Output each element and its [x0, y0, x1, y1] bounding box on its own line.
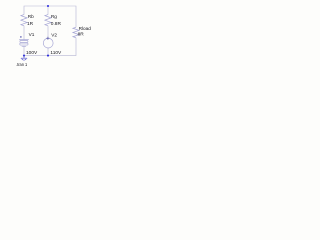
svg-text:0.8R: 0.8R: [51, 21, 62, 27]
svg-text:Rload: Rload: [79, 26, 92, 31]
svg-text:.tran 1: .tran 1: [16, 62, 27, 68]
svg-text:100V: 100V: [26, 50, 38, 56]
svg-text:8R: 8R: [78, 32, 85, 38]
svg-text:V1: V1: [29, 32, 35, 37]
svg-text:Rg: Rg: [51, 14, 57, 19]
svg-text:V2: V2: [51, 33, 57, 38]
svg-text:110V: 110V: [50, 50, 62, 56]
svg-text:Rb: Rb: [28, 14, 34, 19]
svg-text:1R: 1R: [27, 21, 34, 27]
